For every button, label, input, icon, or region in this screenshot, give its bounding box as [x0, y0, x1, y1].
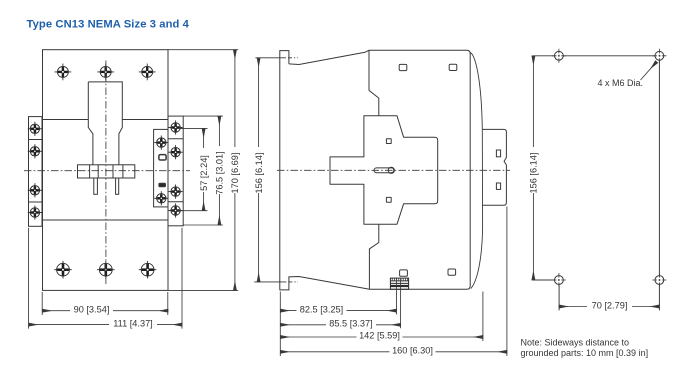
aux screw 1 [154, 136, 168, 150]
strip screw 4 [169, 203, 183, 217]
extension lines 57 dim [177, 128, 208, 210]
side profile [280, 50, 470, 290]
hole3 extension down [558, 280, 560, 310]
dim line 76.5 [218, 116, 220, 225]
extension line rear block [506, 207, 508, 357]
terminal crossbar [78, 165, 135, 178]
dim line 160 [280, 351, 507, 353]
aux contact block [154, 129, 168, 207]
extension lines 76.5 dim [183, 116, 223, 225]
svg-text:grounded parts: 10 mm [0.39 in: grounded parts: 10 mm [0.39 in] [521, 348, 649, 358]
70 dim line [559, 306, 659, 308]
top square holes [399, 64, 407, 70]
label 142 [5.59] [357, 332, 403, 343]
rear block terminal 2 [496, 183, 500, 189]
bottom square holes [400, 270, 408, 276]
dim line 156 side [258, 58, 260, 282]
label 111 [4.37] [109, 319, 157, 330]
extension dashes 156 top [288, 57, 298, 59]
rear terminal block [483, 129, 507, 205]
svg-text:111 [4.37]: 111 [4.37] [113, 318, 153, 328]
internal front module lines [369, 50, 379, 116]
label 85.5 [3.37] [326, 319, 376, 330]
extension lines 170 dim [168, 50, 238, 291]
svg-text:170 [6.69]: 170 [6.69] [230, 153, 240, 194]
label 76.5 [3.01] [214, 146, 224, 194]
strip screw 3 [169, 185, 183, 199]
extension line 156 top [255, 57, 286, 59]
aux window 1 [159, 155, 166, 160]
centerline vertical front [105, 61, 107, 287]
svg-text:160 [6.30]: 160 [6.30] [392, 346, 433, 356]
dim line 111 [29, 324, 182, 326]
inner hline upper [43, 119, 169, 121]
centerline horizontal side [277, 169, 510, 171]
bracket screw 1 [28, 122, 42, 136]
front dimensions [29, 50, 239, 329]
bottom-left extension [533, 279, 560, 281]
side dimensions [254, 58, 507, 356]
extension lines 90 dim [42, 292, 168, 315]
leader arrow M6 [641, 62, 657, 80]
left mounting bracket [29, 117, 43, 227]
svg-text:Note: Sideways distance to: Note: Sideways distance to [521, 337, 630, 347]
dim line 85.5 [280, 324, 400, 326]
crossbar legs [94, 178, 98, 194]
strip screw 2 [169, 145, 183, 159]
right line through holes [658, 56, 660, 311]
dim texts front [70, 146, 240, 330]
strip screw 1 [169, 120, 183, 134]
svg-text:156 [6.14]: 156 [6.14] [254, 153, 264, 194]
screw bottom-right [139, 261, 157, 279]
front outline box [43, 50, 169, 291]
dim line 142 [280, 336, 483, 338]
bracket screw 3 [28, 183, 42, 197]
svg-text:57 [2.24]: 57 [2.24] [199, 155, 209, 191]
screw top-left [55, 64, 72, 81]
svg-text:70 [2.79]: 70 [2.79] [592, 300, 628, 310]
label 90 [3.54] [70, 305, 113, 316]
center slot [374, 168, 394, 173]
dim line 82.5 [280, 310, 396, 312]
dim line 57 [203, 128, 205, 210]
label 156 [6.14] side [253, 147, 263, 193]
label 170 [6.69] [230, 147, 240, 193]
extension line front face [279, 292, 281, 357]
extension dashes 156 bottom [288, 281, 298, 283]
svg-text:82.5 [3.25]: 82.5 [3.25] [300, 304, 343, 314]
dim line 170 [234, 50, 236, 291]
cross square holes [386, 139, 391, 144]
mounting foot [390, 278, 408, 289]
cross front plate [330, 116, 438, 224]
aux window 2 [159, 183, 166, 187]
svg-text:76.5 [3.01]: 76.5 [3.01] [215, 151, 225, 194]
bracket screw 2 [28, 144, 42, 158]
centerline horizontal front [24, 170, 190, 172]
rear block terminal 1 [496, 150, 500, 157]
label 70 [2.79] [587, 301, 632, 311]
svg-text:142 [5.59]: 142 [5.59] [359, 331, 400, 341]
extension line back bulge [482, 292, 484, 342]
screw bottom-left [54, 261, 72, 279]
label 160 [6.30] [390, 346, 436, 357]
156 dim line [532, 56, 534, 280]
extension lines foot [397, 278, 401, 328]
screw top-center [97, 64, 114, 81]
inner hline lower [43, 219, 169, 221]
mounting hole top-left [552, 49, 566, 63]
mounting hole bottom-right [652, 273, 666, 287]
svg-text:Type CN13 NEMA Size 3 and 4: Type CN13 NEMA Size 3 and 4 [27, 18, 190, 30]
top line through holes [533, 55, 660, 57]
svg-text:4 x M6 Dia.: 4 x M6 Dia. [598, 78, 644, 88]
mounting hole bottom-left [552, 273, 566, 287]
mounting hole top-right [652, 49, 666, 63]
coil tower [88, 82, 122, 165]
back bulge [471, 53, 483, 289]
bracket screw 4 [28, 205, 42, 219]
label 57 [2.24] [198, 148, 208, 192]
extension lines 111 dim [29, 228, 182, 329]
dim line 90 [43, 310, 169, 312]
svg-text:156 [6.14]: 156 [6.14] [529, 153, 539, 194]
right terminal strip [168, 116, 183, 226]
svg-text:85.5 [3.37]: 85.5 [3.37] [329, 319, 372, 329]
screw top-right [139, 64, 156, 81]
label 156 [6.14] rear [528, 147, 538, 193]
extension line 156 bottom [254, 281, 286, 283]
aux screw 2 [154, 191, 168, 205]
screw bottom-center [97, 261, 115, 279]
label 82.5 [3.25] [297, 305, 347, 316]
svg-text:90 [3.54]: 90 [3.54] [74, 304, 110, 314]
